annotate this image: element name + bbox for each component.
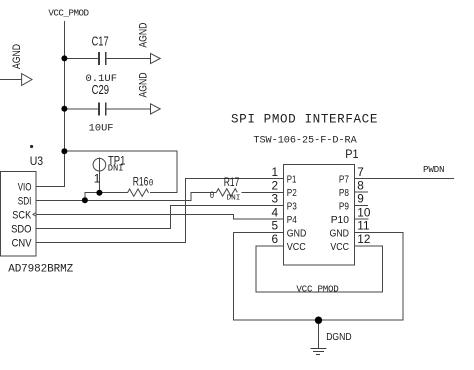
- junction C17: [61, 55, 67, 61]
- power symbol AGND C29: [151, 104, 161, 114]
- resistor R17: [216, 189, 237, 196]
- wire SDO to pin3: [36, 205, 283, 228]
- svg-text:P1: P1: [287, 174, 297, 186]
- junction DGND: [315, 317, 322, 324]
- svg-text:SDI: SDI: [18, 195, 32, 207]
- svg-text:P4: P4: [287, 214, 297, 226]
- capacitor C29: [99, 102, 106, 115]
- svg-text:AGND: AGND: [137, 72, 149, 97]
- wire TP1 drop: [98, 157, 100, 192]
- svg-text:AGND: AGND: [11, 44, 23, 69]
- svg-text:7: 7: [357, 165, 364, 179]
- svg-text:10UF: 10UF: [89, 123, 114, 135]
- svg-text:5: 5: [271, 219, 278, 233]
- svg-text:9: 9: [357, 192, 364, 206]
- svg-text:GND: GND: [330, 227, 350, 239]
- wire pin8 stub: [355, 191, 369, 193]
- net VCC_PMOD vertical wire: [36, 21, 64, 186]
- svg-text:R17: R17: [224, 177, 240, 189]
- wire CNV to pin1: [36, 179, 283, 243]
- svg-text:P8: P8: [339, 187, 349, 199]
- svg-text:DNI: DNI: [227, 194, 241, 202]
- power symbol AGND left: [22, 74, 32, 86]
- junction TP1: [96, 190, 102, 196]
- svg-text:3: 3: [271, 192, 278, 206]
- wire C29 row: [64, 108, 150, 110]
- IC U3 AD7982BRMZ: [1, 172, 36, 256]
- svg-text:10: 10: [357, 206, 371, 220]
- svg-text:4: 4: [271, 206, 278, 220]
- svg-text:0: 0: [149, 179, 154, 190]
- svg-text:0: 0: [210, 191, 215, 202]
- wire left AGND stub: [0, 79, 22, 81]
- svg-text:SPI PMOD INTERFACE: SPI PMOD INTERFACE: [231, 113, 377, 127]
- wire pin9 stub: [355, 204, 369, 206]
- svg-text:11: 11: [357, 219, 369, 233]
- svg-text:P2: P2: [287, 187, 297, 199]
- wire DGND drop: [318, 320, 320, 348]
- svg-text:P7: P7: [339, 174, 349, 186]
- svg-text:C29: C29: [92, 83, 109, 97]
- wire SCK to pin4: [36, 214, 283, 219]
- svg-text:TSW-106-25-F-D-RA: TSW-106-25-F-D-RA: [253, 136, 357, 147]
- connector P1: [283, 165, 354, 265]
- svg-text:P3: P3: [287, 200, 297, 212]
- svg-text:PWDN: PWDN: [423, 164, 445, 175]
- power symbol AGND C17: [151, 53, 161, 63]
- wire SDI to R17 to pin2: [36, 192, 283, 200]
- svg-text:P1: P1: [345, 147, 359, 161]
- wire pin10 stub: [355, 218, 369, 220]
- wire R16 pullup loop: [64, 151, 177, 200]
- svg-text:DNI: DNI: [108, 164, 124, 174]
- svg-text:C17: C17: [92, 34, 109, 48]
- junction C29: [61, 106, 67, 112]
- svg-text:12: 12: [357, 232, 370, 246]
- svg-text:R16: R16: [133, 177, 149, 189]
- svg-text:6: 6: [271, 232, 278, 246]
- svg-text:P9: P9: [339, 200, 349, 212]
- wire VCC inner loop pin6 pin12: [256, 246, 382, 292]
- svg-text:CNV: CNV: [12, 237, 32, 249]
- wire C17 row: [64, 57, 150, 59]
- svg-text:VCC: VCC: [287, 241, 306, 253]
- svg-text:SCK: SCK: [12, 209, 31, 221]
- svg-text:AGND: AGND: [137, 22, 149, 47]
- svg-text:AD7982BRMZ: AD7982BRMZ: [8, 263, 73, 275]
- svg-text:DGND: DGND: [326, 331, 352, 343]
- svg-text:8: 8: [357, 178, 364, 192]
- svg-text:VCC_PMOD: VCC_PMOD: [296, 283, 339, 294]
- junction VIO/R16: [61, 148, 67, 154]
- svg-text:VCC_PMOD: VCC_PMOD: [48, 7, 89, 18]
- resistor R16: [128, 189, 149, 196]
- svg-text:SDO: SDO: [11, 223, 32, 235]
- junction SDI: [82, 197, 88, 203]
- svg-text:VCC: VCC: [330, 241, 349, 253]
- svg-text:P10: P10: [331, 214, 349, 226]
- testpoint TP1: [93, 158, 106, 171]
- svg-text:1: 1: [94, 171, 101, 185]
- wire GND outer loop pin5 pin11: [233, 232, 403, 320]
- capacitor C17: [99, 52, 106, 65]
- svg-text:U3: U3: [30, 154, 44, 168]
- svg-text:VIO: VIO: [18, 181, 32, 193]
- svg-text:GND: GND: [287, 227, 307, 239]
- ground DGND: [310, 348, 326, 354]
- svg-text:1: 1: [271, 165, 278, 179]
- wire pin7 PWDN: [355, 178, 455, 180]
- svg-text:2: 2: [271, 178, 278, 192]
